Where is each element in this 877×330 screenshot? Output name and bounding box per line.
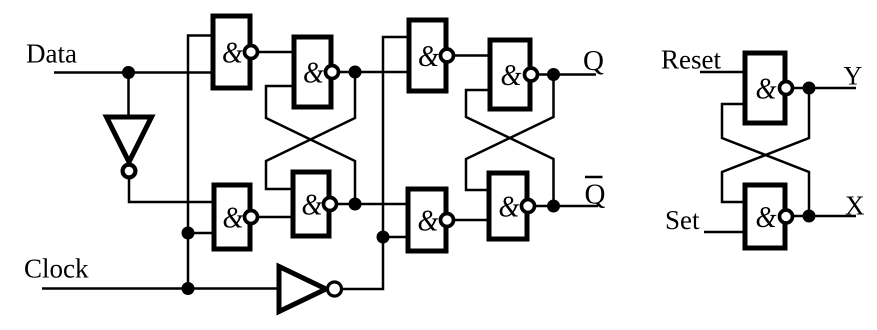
inverter U11 (Data inverter) bbox=[107, 117, 152, 177]
wire: U6 output cross-coupled to U2 lower input bbox=[266, 86, 355, 204]
wire: U10 output cross-coupled to U9 lower input bbox=[722, 104, 809, 216]
svg-text:&: & bbox=[501, 57, 522, 92]
svg-text:&: & bbox=[418, 203, 439, 238]
wire: inverter U11 output down and right to U5 top input bbox=[129, 179, 214, 202]
svg-text:&: & bbox=[756, 199, 777, 234]
svg-text:Y: Y bbox=[844, 62, 863, 91]
junction: U4 output node Q bbox=[547, 68, 560, 81]
svg-text:&: & bbox=[302, 187, 323, 222]
junction: Data / inverter tap bbox=[122, 66, 135, 79]
svg-text:Q: Q bbox=[583, 45, 604, 77]
wire: U2 output cross-coupled to U6 top input bbox=[266, 72, 355, 189]
svg-text:Q: Q bbox=[585, 179, 606, 211]
junction: U9 output node Y bbox=[803, 82, 816, 95]
junction: U2 output node bbox=[349, 66, 362, 79]
NAND gate U8 bbox=[489, 173, 535, 239]
wire: U10 output to X bbox=[793, 215, 856, 218]
wire: U4 output cross-coupled to U8 top input bbox=[466, 75, 554, 191]
svg-text:Reset: Reset bbox=[661, 45, 721, 75]
wire: clock vertical rail to U1 top input bbox=[188, 36, 213, 290]
NAND gate U5 bbox=[214, 185, 258, 249]
wire: inverted clock vertical rail to U3 top input bbox=[342, 37, 408, 289]
wire: U8 output cross-coupled to U4 lower input bbox=[466, 90, 554, 206]
wire: junction to U7 lower input bbox=[383, 236, 408, 239]
wire: U9 output cross-coupled to U10 top input bbox=[722, 88, 809, 202]
wire: U8 output to Q-bar bbox=[535, 205, 598, 208]
wire: U6 output to U7 top input bbox=[337, 203, 408, 206]
svg-text:X: X bbox=[845, 191, 865, 221]
wire: U5 output to U6 lower input bbox=[258, 216, 293, 219]
inverter U12 (Clock inverter) bbox=[279, 267, 342, 312]
svg-text:Data: Data bbox=[26, 39, 77, 69]
wire: Set input net bbox=[704, 231, 745, 234]
svg-text:&: & bbox=[222, 35, 243, 70]
NAND gate U4 bbox=[490, 40, 538, 109]
wire: junction to U5 lower input bbox=[188, 232, 214, 235]
wire: U4 output to Q bbox=[538, 73, 596, 76]
wire: U9 output to Y bbox=[793, 87, 856, 90]
wire: Reset input net bbox=[700, 71, 745, 74]
wire: U1 output to U2 input bbox=[258, 51, 294, 54]
svg-text:&: & bbox=[499, 189, 520, 224]
wire: Data tap down to inverter U11 bbox=[127, 73, 130, 118]
NAND gate U2 bbox=[294, 37, 339, 107]
wire: U7 output to U8 lower input bbox=[454, 219, 489, 222]
junction: U6 output node bbox=[349, 198, 362, 211]
wire: U2 output to U3 lower input bbox=[338, 71, 408, 74]
NAND gate U10 bbox=[745, 185, 793, 248]
wire: Data input net bbox=[54, 71, 213, 74]
junction: U8 output node Q-bar bbox=[547, 200, 560, 213]
svg-text:&: & bbox=[418, 38, 439, 73]
wire: U3 output to U4 top input bbox=[454, 54, 490, 57]
junction: inverted clock rail / U7 input bbox=[377, 231, 390, 244]
junction: clock rail / U5 input bbox=[182, 227, 195, 240]
svg-text:Clock: Clock bbox=[24, 254, 89, 284]
NAND gate U7 bbox=[408, 189, 454, 251]
NAND gate U3 bbox=[409, 20, 454, 91]
NAND gate U1 bbox=[213, 16, 258, 88]
svg-text:&: & bbox=[756, 71, 777, 106]
svg-text:&: & bbox=[303, 55, 324, 90]
NAND gate U9 bbox=[745, 53, 793, 123]
node Q-bar label bbox=[585, 177, 606, 211]
junction: Clock net / rail bbox=[182, 282, 195, 295]
svg-text:Set: Set bbox=[665, 205, 700, 235]
junction: U10 output node X bbox=[803, 210, 816, 223]
svg-text:&: & bbox=[223, 200, 244, 235]
NAND gate U6 bbox=[293, 172, 337, 236]
wire: Clock input net bbox=[42, 287, 279, 290]
